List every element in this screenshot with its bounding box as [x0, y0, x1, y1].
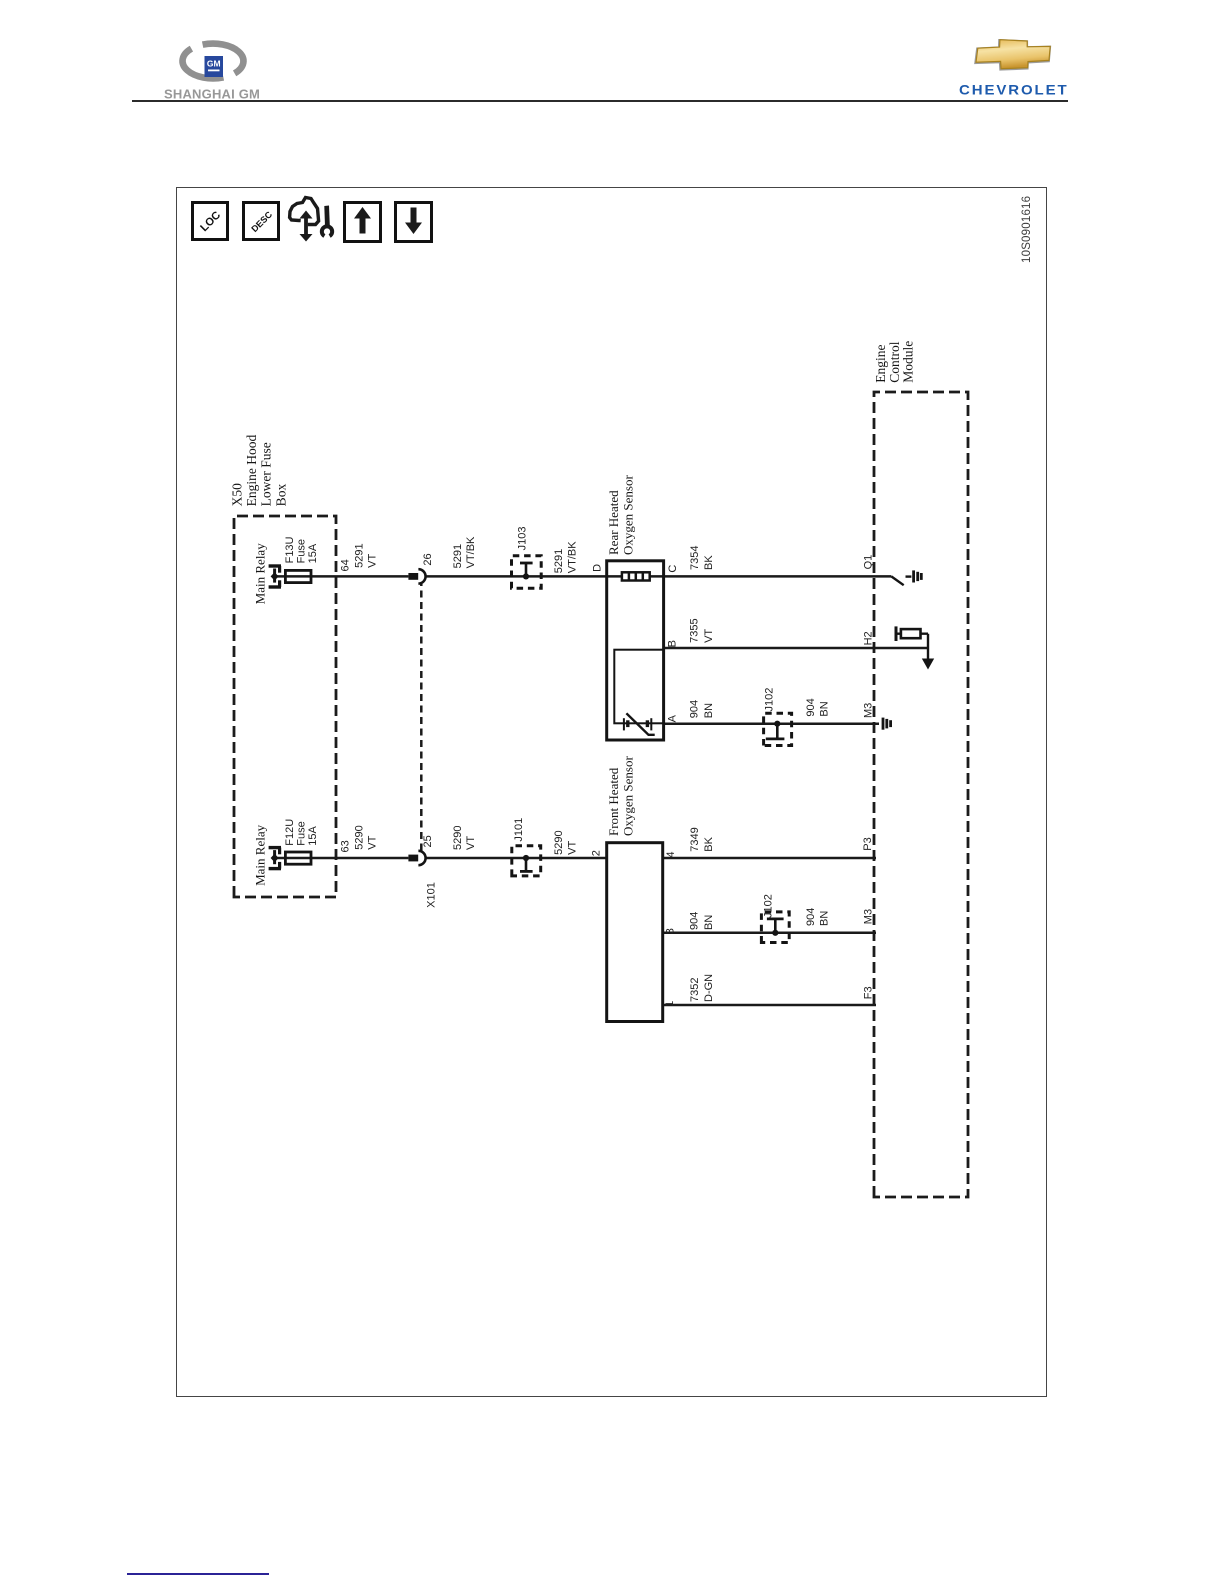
X101 pin 26 terminal: [408, 573, 418, 580]
svg-text:M3: M3: [862, 703, 874, 718]
wire: rear sensor heater through box (D to C): [607, 575, 664, 578]
ECM internal H2 branch wire: [921, 634, 929, 665]
svg-text:5290: 5290: [353, 825, 365, 849]
wire 5290 VT: fuse F12U to connector X101 pin 25: [275, 857, 409, 860]
svg-text:5291: 5291: [553, 549, 565, 573]
splice J102 (front branch): [761, 894, 789, 942]
fuse F12U: [285, 852, 311, 864]
wire 7354 BK: rear sensor pin C to ECM Q1: [664, 575, 892, 578]
svg-text:A: A: [667, 714, 679, 722]
svg-text:5290: 5290: [452, 826, 464, 850]
wire label 5290 VT (above X101): [353, 825, 378, 849]
wire label 5290 VT (below X101): [452, 826, 477, 850]
rear sensor name: [606, 475, 636, 555]
wire label 5291 VT/BK (below J103): [553, 541, 578, 573]
wire label 7355 VT: [689, 618, 716, 642]
svg-text:Lower Fuse: Lower Fuse: [259, 442, 274, 506]
wire label 5291 VT (above X101): [353, 543, 378, 567]
fuse F13U: [285, 570, 311, 582]
svg-text:2: 2: [590, 850, 602, 856]
Chevrolet logo: [955, 30, 1080, 100]
svg-text:Fuse: Fuse: [295, 821, 307, 845]
up arrow button: [345, 203, 381, 242]
svg-text:Oxygen Sensor: Oxygen Sensor: [621, 475, 636, 555]
relay contact (Main Relay, F13U branch): [269, 566, 281, 587]
svg-text:BN: BN: [703, 703, 715, 718]
svg-text:Main Relay: Main Relay: [253, 543, 268, 605]
bias resistor (H2): [901, 629, 921, 638]
ground symbol (Q1): [906, 570, 922, 582]
svg-text:J101: J101: [513, 818, 525, 842]
svg-text:64: 64: [340, 559, 352, 571]
ECM internal switch to ground (Q1): [891, 576, 903, 585]
svg-text:BK: BK: [703, 836, 715, 851]
relay contact (Main Relay, F12U branch): [269, 848, 281, 869]
svg-text:904: 904: [689, 912, 701, 930]
wire 904 BN: rear sensor pin A through splice J102 to ECM M3: [664, 722, 879, 725]
svg-text:7354: 7354: [689, 546, 701, 570]
svg-text:P3: P3: [862, 837, 874, 850]
wire 5290 VT: X101 pin 25 through splice J101 to front sensor pin 2: [426, 857, 607, 860]
LOC button: [193, 203, 228, 240]
X50 label: [230, 434, 289, 506]
svg-text:BN: BN: [703, 915, 715, 930]
off-page arrow (H2): [922, 659, 934, 670]
fuse F12U value label: [284, 819, 319, 846]
svg-text:7355: 7355: [689, 618, 701, 642]
svg-text:BK: BK: [703, 555, 715, 570]
svg-text:1: 1: [664, 1001, 676, 1007]
voltage supply tee (H2): [896, 626, 901, 641]
svg-text:VT: VT: [703, 629, 715, 643]
rear heated oxygen sensor box: [607, 561, 664, 740]
svg-text:J102: J102: [763, 894, 775, 918]
svg-text:Rear Heated: Rear Heated: [606, 490, 621, 555]
svg-text:B: B: [666, 640, 678, 647]
svg-text:VT/BK: VT/BK: [465, 536, 477, 568]
X101 pin 25 terminal: [408, 855, 418, 862]
svg-text:25: 25: [422, 835, 434, 847]
wire 904 BN: front sensor pin 3 through splice J102 to ECM M3: [663, 932, 876, 935]
svg-text:GM: GM: [207, 59, 221, 69]
svg-text:VT: VT: [367, 835, 379, 849]
svg-text:F12U: F12U: [284, 819, 296, 846]
wire 7352 D-GN: front sensor pin 1 to ECM F3: [663, 1004, 876, 1007]
svg-text:Q1: Q1: [863, 555, 875, 570]
splice J102 (rear branch): [763, 688, 791, 746]
svg-text:904: 904: [805, 908, 817, 926]
wire label 7354 BK: [689, 546, 715, 570]
wire label 904 BN (front, above J102): [689, 912, 715, 930]
svg-text:VT: VT: [465, 836, 477, 850]
svg-text:Main Relay: Main Relay: [253, 824, 268, 886]
ECM dashed box: [874, 392, 968, 1197]
vehicle up-down tool icon: [290, 198, 319, 225]
svg-text:15A: 15A: [307, 825, 319, 845]
svg-text:10S0901616: 10S0901616: [1021, 196, 1033, 263]
svg-text:Oxygen Sensor: Oxygen Sensor: [621, 756, 636, 836]
wire 7349 BK: front sensor pin 4 to ECM P3: [663, 857, 876, 860]
svg-text:BN: BN: [819, 911, 831, 926]
svg-text:Module: Module: [901, 341, 916, 383]
ECM label: [873, 341, 916, 383]
svg-text:CHEVROLET: CHEVROLET: [959, 83, 1069, 98]
svg-text:Box: Box: [274, 484, 289, 507]
svg-text:M3: M3: [863, 909, 875, 924]
svg-text:VT: VT: [566, 840, 578, 854]
wire label 7352 D-GN: [689, 974, 715, 1002]
svg-text:5291: 5291: [353, 543, 365, 567]
svg-text:7349: 7349: [689, 827, 701, 851]
svg-text:Engine Hood: Engine Hood: [244, 434, 259, 506]
svg-text:3: 3: [665, 928, 677, 934]
svg-text:15A: 15A: [307, 543, 319, 563]
front sensor name: [606, 756, 636, 836]
footer blue rule: [127, 1573, 269, 1575]
ground symbol (M3 rear): [883, 718, 891, 730]
svg-text:Engine: Engine: [873, 344, 888, 382]
wire label 7349 BK: [689, 827, 715, 851]
fuse F13U value label: [284, 536, 319, 563]
wire label 904 BN (rear, below J102): [805, 698, 831, 716]
svg-text:X101: X101: [426, 882, 438, 908]
svg-text:904: 904: [805, 698, 817, 716]
svg-text:D: D: [592, 564, 604, 572]
svg-text:Fuse: Fuse: [295, 539, 307, 563]
toolbar icons: [176, 187, 606, 257]
svg-text:5290: 5290: [553, 830, 565, 854]
front heated oxygen sensor box: [607, 843, 663, 1022]
svg-text:BN: BN: [819, 701, 831, 716]
svg-text:C: C: [667, 565, 679, 573]
sensing element inner box (rear sensor): [614, 650, 663, 724]
wire label 5291 VT/BK (below X101): [452, 536, 477, 568]
zirconia cell symbol: [624, 713, 655, 735]
svg-text:63: 63: [340, 840, 352, 852]
svg-text:F13U: F13U: [284, 536, 296, 563]
wire 5291 VT/BK: X101 pin 26 through splice J103 to rear sensor pin D: [426, 575, 607, 578]
splice J103: [512, 527, 542, 589]
wire 5291 VT: fuse F13U to connector X101 pin 26: [275, 575, 409, 578]
wire label 5290 VT (below J101): [553, 830, 578, 854]
wire label 904 BN (front, below J102): [805, 908, 831, 926]
svg-text:VT: VT: [367, 553, 379, 567]
svg-text:5291: 5291: [452, 544, 464, 568]
Shanghai GM logo: [160, 30, 290, 102]
heater element (rear sensor): [622, 572, 650, 580]
svg-text:904: 904: [689, 700, 701, 718]
splice J101: [512, 818, 541, 876]
wire label 904 BN (rear, above J102): [689, 700, 715, 718]
svg-text:H2: H2: [863, 631, 875, 645]
svg-text:X50: X50: [230, 483, 245, 506]
wire 7355 VT: rear sensor pin B to ECM H2: [664, 647, 928, 650]
svg-text:F3: F3: [863, 986, 875, 999]
down arrow button: [396, 203, 432, 242]
svg-text:J103: J103: [517, 527, 529, 551]
svg-text:26: 26: [422, 553, 434, 565]
svg-text:VT/BK: VT/BK: [566, 541, 578, 573]
svg-text:D-GN: D-GN: [703, 974, 715, 1002]
fuse block X50 dashed box: [234, 516, 336, 897]
connector X101 dashed link line: [420, 584, 423, 851]
svg-text:Front Heated: Front Heated: [606, 767, 621, 836]
svg-text:J102: J102: [763, 688, 775, 712]
header rule: [132, 100, 1068, 102]
svg-text:Control: Control: [887, 341, 902, 383]
svg-text:7352: 7352: [689, 978, 701, 1002]
svg-text:4: 4: [665, 851, 677, 857]
DESC button: [244, 203, 279, 240]
